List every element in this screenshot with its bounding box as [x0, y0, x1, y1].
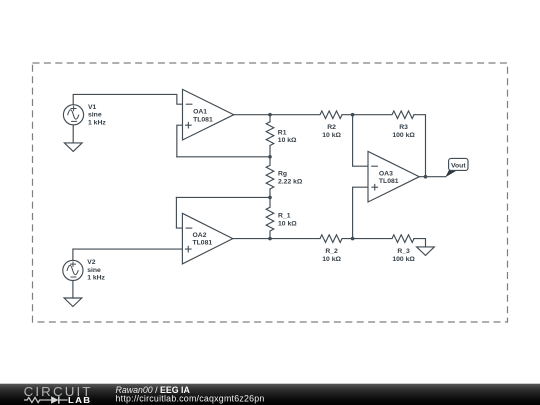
voltage source V2: [63, 260, 83, 280]
svg-text:OA1: OA1: [193, 108, 207, 115]
node R2-R3: [351, 113, 355, 117]
wire V1 to ground: [72, 125, 74, 143]
svg-text:100 kΩ: 100 kΩ: [392, 256, 415, 263]
wire R2 to R3: [342, 114, 392, 116]
resistor R3 zigzag: [392, 111, 414, 119]
svg-text:10 kΩ: 10 kΩ: [278, 137, 297, 144]
wire OA1 output to node: [234, 114, 320, 116]
schematic sheet dashed outline: [33, 63, 508, 322]
svg-text:TL081: TL081: [379, 178, 399, 185]
node OA1 out: [268, 113, 272, 117]
wire V1 to OA1 inverting input: [73, 94, 182, 104]
wire OA2 inverting feedback: [176, 197, 182, 228]
node OA2 out: [268, 237, 272, 241]
resistor R_2 zigzag: [320, 235, 342, 243]
svg-text:OA2: OA2: [193, 232, 207, 239]
node Rg-R_1: [268, 196, 272, 200]
wire R3 right corner down: [414, 115, 426, 177]
wire OA3 output to Vout: [419, 176, 445, 178]
wire V2 to ground: [72, 281, 74, 298]
op-amp OA2: [182, 213, 232, 264]
svg-text:R1: R1: [278, 129, 287, 136]
resistor R_1 zigzag: [266, 207, 274, 231]
svg-text:R_2: R_2: [325, 248, 338, 255]
svg-text:10 kΩ: 10 kΩ: [278, 221, 297, 228]
node R_2-R_3: [351, 237, 355, 241]
op-amp OA1: [183, 89, 234, 140]
resistor Rg zigzag: [266, 165, 274, 189]
svg-text:1 kHz: 1 kHz: [88, 120, 106, 127]
Vout flag: [445, 158, 468, 177]
svg-text:2.22 kΩ: 2.22 kΩ: [278, 178, 303, 185]
wire middle column Rg bottom lead: [269, 189, 271, 207]
svg-text:10 kΩ: 10 kΩ: [322, 256, 341, 263]
svg-text:sine: sine: [88, 112, 102, 119]
svg-text:1 kHz: 1 kHz: [87, 275, 105, 282]
wire middle column R1 top lead: [269, 115, 271, 122]
wire R2 node down to OA3 inverting input: [353, 115, 368, 167]
ground under V2: [64, 298, 82, 307]
footer logo resistor glyph: [24, 397, 43, 402]
svg-text:R_1: R_1: [278, 213, 291, 220]
svg-text:R_3: R_3: [397, 248, 410, 255]
wire OA3 noninverting input from bottom node: [353, 187, 368, 238]
resistor R2 zigzag: [320, 111, 342, 119]
voltage source V1: [63, 105, 83, 125]
wire V2 to OA2 noninverting input: [73, 249, 182, 260]
svg-text:R2: R2: [327, 124, 336, 131]
svg-text:Rg: Rg: [278, 170, 287, 177]
resistor R_3 zigzag: [392, 235, 414, 243]
wire R_3 to ground: [414, 239, 426, 247]
wire OA1 noninverting feedback: [177, 125, 183, 157]
svg-text:100 kΩ: 100 kΩ: [392, 132, 415, 139]
svg-text:R3: R3: [399, 124, 408, 131]
ground at R_3: [417, 247, 435, 256]
wire middle column R_1 bottom lead: [269, 231, 271, 239]
svg-text:sine: sine: [87, 267, 101, 274]
node OA3 out: [424, 175, 428, 179]
ground under V1: [64, 143, 82, 152]
footer bar: [0, 384, 540, 405]
footer logo diode glyph: [43, 399, 51, 401]
svg-text:LAB: LAB: [68, 395, 91, 405]
svg-text:V2: V2: [87, 259, 96, 266]
node R1-Rg: [268, 155, 272, 159]
svg-text:TL081: TL081: [193, 239, 213, 246]
op-amp OA3: [368, 151, 419, 202]
wire middle column R1 bottom lead: [269, 146, 271, 166]
svg-text:Vout: Vout: [451, 162, 466, 169]
resistor R1 zigzag: [266, 122, 274, 146]
svg-text:V1: V1: [88, 104, 97, 111]
svg-text:TL081: TL081: [193, 116, 213, 123]
svg-text:OA3: OA3: [379, 170, 393, 177]
wire node C row: [176, 196, 270, 198]
wire node B row: [177, 156, 270, 158]
wire OA2 output to node: [233, 238, 320, 240]
svg-text:http://circuitlab.com/caqxgmt6: http://circuitlab.com/caqxgmt6z26pn: [116, 394, 265, 404]
wire R_2 to R_3: [342, 238, 392, 240]
svg-text:10 kΩ: 10 kΩ: [322, 132, 341, 139]
